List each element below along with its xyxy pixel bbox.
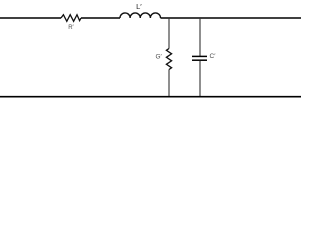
svg-text:G′: G′	[156, 54, 163, 61]
resistor G'	[166, 49, 171, 70]
inductor L'	[120, 13, 161, 18]
svg-text:L′: L′	[136, 2, 142, 11]
wire top-left segment	[0, 17, 61, 19]
wire between R' and L'	[81, 17, 120, 19]
wire C' branch top	[199, 18, 201, 56]
svg-text:R′: R′	[68, 25, 74, 31]
wire top-right segment	[161, 17, 302, 19]
resistor R'	[61, 15, 81, 22]
wire C' branch bottom	[199, 61, 201, 97]
svg-text:C′: C′	[210, 53, 217, 60]
wire bottom rail	[0, 96, 301, 98]
wire G' branch bottom	[168, 70, 170, 97]
capacitor C'	[192, 56, 207, 60]
wire G' branch top	[168, 18, 170, 49]
